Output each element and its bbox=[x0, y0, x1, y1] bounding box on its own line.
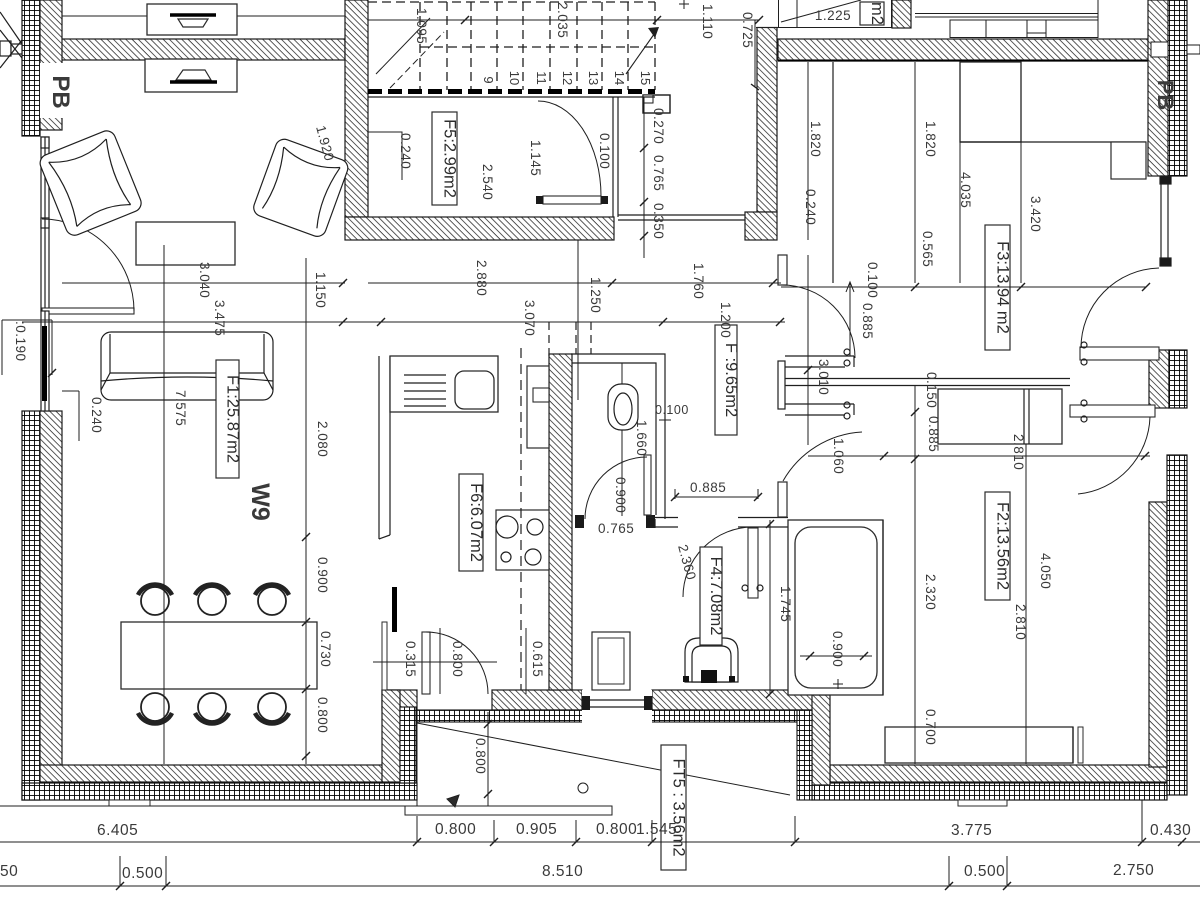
svg-text:0.885: 0.885 bbox=[690, 480, 726, 495]
wall: F5 right thin wall bbox=[368, 97, 655, 217]
svg-text:1.060: 1.060 bbox=[831, 438, 846, 474]
svg-text:1.660: 1.660 bbox=[634, 420, 649, 456]
plus marks bbox=[659, 0, 689, 426]
door: hall arc to closet bbox=[781, 285, 855, 358]
svg-text:1.250: 1.250 bbox=[588, 277, 603, 313]
svg-text:0.100: 0.100 bbox=[597, 133, 612, 169]
wall: bottom exterior left bbox=[22, 765, 417, 800]
door: WC leaf + swing bbox=[644, 455, 651, 515]
bottom wall notch right bbox=[958, 800, 1007, 806]
svg-text:F4:7.08m2: F4:7.08m2 bbox=[707, 557, 725, 636]
terrace door black post bbox=[392, 587, 397, 632]
sideboard F2 bbox=[885, 727, 1073, 763]
label box F6 bbox=[459, 474, 483, 571]
svg-text:0.765: 0.765 bbox=[598, 521, 634, 536]
svg-text:14: 14 bbox=[612, 71, 627, 85]
svg-text:0.900: 0.900 bbox=[613, 477, 628, 513]
stair cut diagonal bbox=[376, 18, 430, 74]
porch top right bbox=[915, 0, 1098, 38]
svg-text:1.545: 1.545 bbox=[636, 821, 677, 838]
svg-text:F2:13.56m2: F2:13.56m2 bbox=[994, 502, 1012, 590]
wall: south center band with openings bbox=[382, 690, 827, 722]
svg-text:W9: W9 bbox=[246, 483, 274, 521]
door: bath leaf + swing bbox=[748, 528, 758, 598]
dim line stairs top bbox=[368, 19, 759, 21]
closet: U-shaped enclosure bbox=[778, 349, 854, 419]
svg-text:15: 15 bbox=[638, 71, 653, 85]
cooktop block bbox=[496, 510, 549, 570]
dim vline terrace 0.800 bbox=[487, 712, 489, 806]
dim vline x1026 bbox=[1025, 444, 1027, 764]
label box F3 bbox=[985, 225, 1010, 350]
dim vline x915 top bbox=[914, 62, 916, 283]
svg-text:0.730: 0.730 bbox=[318, 631, 333, 667]
svg-text:8.510: 8.510 bbox=[542, 863, 583, 880]
dim vline 0.725 bbox=[754, 20, 756, 87]
svg-text:3.475: 3.475 bbox=[212, 300, 227, 336]
wall: left exterior lower bbox=[22, 411, 62, 800]
svg-text:2.080: 2.080 bbox=[315, 421, 330, 457]
svg-text:0.240: 0.240 bbox=[803, 189, 818, 225]
svg-text:1.150: 1.150 bbox=[313, 272, 328, 308]
kitchen sink bbox=[455, 371, 494, 409]
svg-text:50: 50 bbox=[0, 863, 18, 880]
dim vline x164 bbox=[163, 245, 165, 764]
dim 0.885 hall bbox=[675, 489, 758, 499]
dim 0.100 hall vline bbox=[849, 282, 851, 356]
svg-text:1.145: 1.145 bbox=[528, 140, 543, 176]
svg-text::0.190: :0.190 bbox=[13, 321, 28, 362]
svg-text:9: 9 bbox=[481, 76, 496, 83]
dim vline x915 lower bbox=[914, 386, 916, 764]
svg-text:0.240: 0.240 bbox=[398, 133, 413, 169]
svg-text:0.765: 0.765 bbox=[651, 155, 666, 191]
svg-text:2.320: 2.320 bbox=[923, 574, 938, 610]
dining chairs bottom row bbox=[138, 693, 289, 724]
svg-text:3.775: 3.775 bbox=[951, 822, 992, 839]
svg-text:3.070: 3.070 bbox=[522, 300, 537, 336]
dim hline y322 bbox=[22, 321, 785, 323]
svg-text:0.700: 0.700 bbox=[923, 709, 938, 745]
wall: top-right exterior band bbox=[778, 39, 1151, 61]
svg-text:2.750: 2.750 bbox=[1113, 862, 1154, 879]
svg-text:F5:2.99m2: F5:2.99m2 bbox=[441, 119, 459, 198]
stair mid landing dashed bbox=[420, 46, 655, 48]
dim vline x578 bbox=[577, 240, 579, 400]
bathtub bbox=[788, 520, 883, 695]
svg-text:10: 10 bbox=[507, 71, 522, 85]
svg-text:0.430: 0.430 bbox=[1150, 822, 1191, 839]
svg-text:0.800: 0.800 bbox=[450, 641, 465, 677]
dim vline x306 bbox=[305, 258, 307, 764]
label box F (hall) bbox=[715, 325, 737, 435]
svg-text:0.725: 0.725 bbox=[740, 12, 755, 48]
dim door 0.800/0.315 bbox=[439, 628, 441, 694]
svg-text:0.240: 0.240 bbox=[89, 397, 104, 433]
wall: center-top wall bbox=[745, 28, 777, 241]
svg-text:0.800: 0.800 bbox=[473, 738, 488, 774]
svg-text:PB: PB bbox=[1153, 80, 1178, 111]
label box FT5 bbox=[661, 745, 686, 870]
wall: right exterior column bbox=[1148, 0, 1200, 176]
svg-text:F6:6.07m2: F6:6.07m2 bbox=[467, 483, 485, 562]
svg-text:0.905: 0.905 bbox=[516, 821, 557, 838]
dim hline y456 bbox=[808, 455, 1150, 457]
niche outline above center wall bbox=[756, 0, 892, 28]
label 1.225 + m2 box bbox=[781, 0, 861, 22]
svg-text:1.095: 1.095 bbox=[414, 8, 429, 44]
svg-text:0.800: 0.800 bbox=[435, 821, 476, 838]
svg-text:PB: PB bbox=[47, 75, 74, 108]
stairwell right stub bbox=[643, 95, 670, 113]
svg-text:13: 13 bbox=[586, 71, 601, 85]
dim vline x808 bbox=[807, 62, 809, 240]
wall: right exterior lower bbox=[1149, 455, 1187, 795]
wall: small stub top bbox=[892, 0, 911, 28]
armchair left bbox=[37, 128, 143, 238]
dining table bbox=[121, 622, 317, 689]
door: hall-F2 arc bbox=[783, 432, 862, 481]
dim 0.900 bath bbox=[800, 655, 872, 657]
label box F5 bbox=[432, 112, 457, 205]
dim L F5 0.240 bbox=[368, 132, 402, 180]
svg-text:2.810: 2.810 bbox=[1011, 434, 1026, 470]
dim 0.615 bbox=[525, 628, 527, 694]
dim vline WC 1.660 bbox=[621, 363, 623, 516]
svg-text:1.760: 1.760 bbox=[691, 263, 706, 299]
terrace diagonal + marker bbox=[417, 723, 790, 795]
wall: kitchen hatched divider bbox=[549, 354, 572, 690]
svg-text:2.810: 2.810 bbox=[1013, 604, 1028, 640]
svg-text:11: 11 bbox=[534, 71, 549, 85]
wall: right pier between doors bbox=[1149, 350, 1187, 408]
svg-text:2.035: 2.035 bbox=[555, 2, 570, 38]
svg-text:F1:25.87m2: F1:25.87m2 bbox=[224, 375, 242, 463]
dim vline x960 bbox=[959, 62, 961, 283]
window: top-left wall stub window bbox=[0, 12, 22, 68]
svg-text:3.040: 3.040 bbox=[197, 262, 212, 298]
wall: hall top thin wall piece bbox=[618, 215, 745, 220]
sideboard top with speaker bbox=[147, 4, 237, 35]
kitchen partition to living room bbox=[379, 356, 390, 539]
svg-text:0.500: 0.500 bbox=[964, 863, 1005, 880]
stove grill lines bbox=[404, 375, 446, 406]
door: F2 door leaf + swing bbox=[1070, 405, 1155, 417]
svg-text:0.800: 0.800 bbox=[596, 821, 637, 838]
kitchen dashed boundary bbox=[520, 348, 522, 690]
stair treads dashed bbox=[419, 2, 421, 90]
stair direction arrow bbox=[626, 30, 657, 74]
svg-text:3.420: 3.420 bbox=[1028, 196, 1043, 232]
svg-text:0.900: 0.900 bbox=[315, 557, 330, 593]
window: south wall window bbox=[582, 690, 652, 724]
wall: stub below center wall bbox=[778, 255, 787, 285]
wall: WC outline bbox=[571, 354, 665, 519]
svg-text:F :9.65m2: F :9.65m2 bbox=[722, 343, 740, 417]
porch edge line top-left bbox=[62, 15, 345, 17]
svg-text:7.575: 7.575 bbox=[173, 390, 188, 426]
wall: terrace step verticals bbox=[382, 690, 830, 800]
window: right wall glazing bbox=[1160, 176, 1171, 266]
svg-text:0.150: 0.150 bbox=[924, 372, 939, 408]
shelf on kitchen wall bbox=[534, 387, 548, 401]
svg-text:0.615: 0.615 bbox=[530, 641, 545, 677]
wardrobe F3 bbox=[832, 62, 834, 283]
svg-text:0.315: 0.315 bbox=[403, 641, 418, 677]
svg-text:m2: m2 bbox=[868, 2, 886, 25]
bottom wall notch left bbox=[109, 800, 150, 806]
door: WC door jambs bbox=[575, 515, 584, 528]
svg-text:0.885: 0.885 bbox=[926, 416, 941, 452]
svg-text:1.200: 1.200 bbox=[718, 302, 733, 338]
svg-text:0.500: 0.500 bbox=[122, 865, 163, 882]
dim vline x770 bath 1.745 bbox=[769, 520, 771, 694]
coffee table bbox=[136, 222, 235, 265]
svg-text:2.540: 2.540 bbox=[480, 164, 495, 200]
svg-text:1.820: 1.820 bbox=[808, 121, 823, 157]
wall: bath top bbox=[647, 518, 788, 529]
dim 0.190 left bbox=[2, 319, 52, 321]
svg-text:4.035: 4.035 bbox=[958, 172, 973, 208]
fixture: cabinet near bath bbox=[592, 632, 630, 690]
svg-text:0.565: 0.565 bbox=[920, 231, 935, 267]
svg-text:0.885: 0.885 bbox=[860, 303, 875, 339]
dim vline x1035 bbox=[1020, 62, 1022, 283]
kitchen counter top bbox=[390, 356, 498, 412]
svg-text:6.405: 6.405 bbox=[97, 822, 138, 839]
wall: left exterior upper checkered bbox=[22, 0, 64, 136]
svg-text:0.350: 0.350 bbox=[651, 203, 666, 239]
sideboard bottom with speaker bbox=[145, 59, 237, 92]
sofa bbox=[101, 332, 273, 400]
svg-text:0.800: 0.800 bbox=[315, 697, 330, 733]
window: left glazing lower bbox=[41, 311, 49, 411]
stair step numbers bbox=[481, 71, 653, 85]
label box F4 bbox=[700, 547, 722, 645]
wall: F3/F2 divider bbox=[785, 379, 1070, 386]
label box F1 bbox=[216, 360, 239, 478]
svg-text:0.900: 0.900 bbox=[830, 631, 845, 667]
svg-text:0.270: 0.270 bbox=[651, 108, 666, 144]
wall: bath/F2 divider bbox=[882, 520, 884, 695]
door: F5 door leaf + swing bbox=[543, 196, 601, 204]
dim vline x644 0.350 bbox=[643, 97, 645, 258]
door: terrace door leaf + swing bbox=[422, 632, 430, 694]
fixture: bath toilet bbox=[685, 638, 738, 682]
label box F2 bbox=[985, 492, 1010, 600]
svg-text:1.820: 1.820 bbox=[923, 121, 938, 157]
stair boundary dashed top bbox=[368, 1, 655, 3]
dim 0.240 left bbox=[62, 390, 79, 392]
door: F3 door leaf + swing bbox=[1080, 347, 1159, 360]
window: left glazing upper bbox=[41, 137, 49, 311]
svg-text:12: 12 bbox=[560, 71, 575, 85]
svg-text:1.110: 1.110 bbox=[700, 4, 715, 39]
svg-text:0.100: 0.100 bbox=[865, 262, 880, 298]
stair wall-over dashed heavy bbox=[368, 89, 655, 94]
wardrobe F2 bbox=[938, 389, 1062, 444]
dim hline y283 bbox=[62, 282, 345, 284]
wall: top-left exterior band bbox=[42, 39, 345, 60]
svg-text:1.225: 1.225 bbox=[815, 8, 851, 23]
svg-text:2.880: 2.880 bbox=[474, 260, 489, 296]
svg-text:1.745: 1.745 bbox=[778, 586, 793, 622]
svg-text:0.100: 0.100 bbox=[655, 403, 689, 417]
wall: stairwell thick wall bbox=[345, 0, 614, 240]
wall: bottom exterior right bbox=[812, 765, 1167, 800]
door: left entrance leaf + swing bbox=[42, 308, 134, 314]
dining chairs top row bbox=[138, 584, 289, 615]
tall cabinet bbox=[527, 366, 549, 448]
svg-text:4.050: 4.050 bbox=[1038, 553, 1053, 589]
armchair right bbox=[251, 137, 350, 239]
fixture: WC toilet bbox=[608, 384, 638, 430]
terrace outline bbox=[405, 722, 612, 815]
svg-text:3.010: 3.010 bbox=[816, 359, 831, 395]
